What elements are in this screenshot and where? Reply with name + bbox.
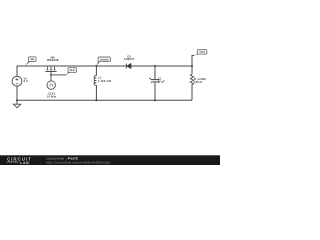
svg-text:CLK: CLK <box>70 69 75 72</box>
svg-text:IRF4638: IRF4638 <box>47 58 59 62</box>
svg-text:http://circuitlab.com/c/4y9arf: http://circuitlab.com/c/4y9arfxk93n2gd <box>46 161 110 165</box>
svg-text:47 µF: 47 µF <box>158 80 166 84</box>
svg-text:10 kHz: 10 kHz <box>47 94 57 98</box>
svg-text:Vout: Vout <box>199 51 205 54</box>
svg-text:Vin: Vin <box>30 58 34 61</box>
svg-text:100 Ω: 100 Ω <box>194 80 203 84</box>
svg-text:LAB: LAB <box>20 161 30 165</box>
svg-text:Vswitch: Vswitch <box>100 58 109 61</box>
svg-text:1.119 mH: 1.119 mH <box>98 79 111 83</box>
svg-text:2 V: 2 V <box>24 79 28 83</box>
svg-text:1N4007: 1N4007 <box>124 57 135 61</box>
